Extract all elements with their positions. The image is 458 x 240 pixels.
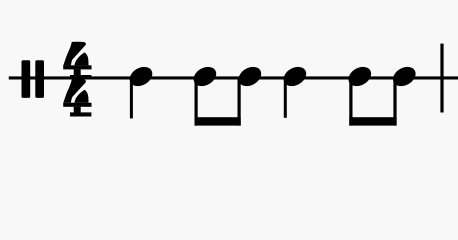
note 4 (quarter note): notehead (280, 63, 310, 90)
beam joining notes 2-3 (195, 117, 241, 125)
note 6 (eighth note): stem (393, 78, 396, 126)
note 3 (eighth note): stem (238, 78, 241, 126)
note 5 (eighth note): notehead (345, 63, 375, 90)
note 2 (eighth note): notehead (190, 63, 220, 90)
note 1 (quarter note): notehead (126, 63, 156, 90)
note 2 (eighth note): stem (195, 78, 198, 126)
percussion clef (two thick bars) (22, 60, 45, 98)
staff line (single-line percussion staff) (9, 76, 458, 79)
time signature denominator 4 (63, 79, 91, 116)
note 6 (eighth note): notehead (390, 63, 420, 90)
note 3 (eighth note): notehead (235, 63, 265, 90)
note 4 (quarter note): stem (284, 78, 287, 118)
beam joining notes 5-6 (349, 117, 396, 125)
time signature numerator 4 (63, 42, 91, 79)
end barline (440, 44, 443, 113)
note 5 (eighth note): stem (349, 78, 352, 126)
note 1 (quarter note): stem (130, 78, 133, 118)
